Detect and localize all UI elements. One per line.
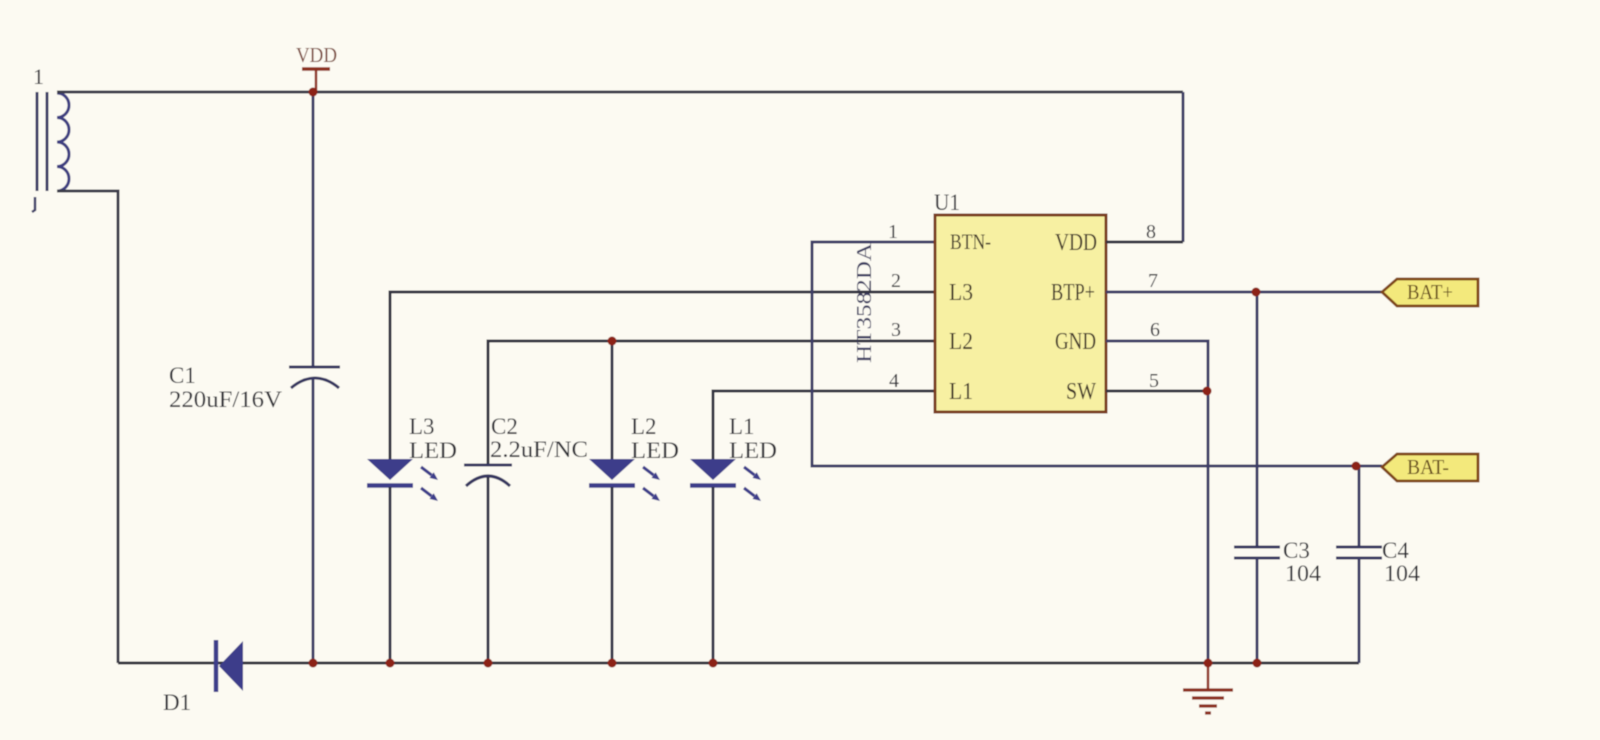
svg-text:L3: L3 [949,280,973,306]
wire: LED L2 lower lead [611,487,614,663]
node: C2 bus junction dot [484,659,493,668]
svg-text:BTP+: BTP+ [1051,280,1095,306]
svg-text:C1: C1 [169,363,196,388]
ground symbol bars [1183,690,1233,713]
node: C1 bus junction dot [309,659,318,668]
wire: C4 lower lead [1358,558,1361,663]
LED L1 triangle [690,459,736,480]
svg-text:3: 3 [891,319,901,341]
LED L2 arrow 2 [643,488,660,501]
diode D1 triangle [219,641,243,691]
diode D1 cathode bar [214,640,219,692]
transformer T1 bottom polarity tick [32,197,35,212]
wire: top bus from transformer to pin8 riser [57,91,1183,94]
svg-text:2: 2 [891,270,901,292]
svg-text:L1: L1 [949,379,973,405]
wire: U1 pin 3 to C2 [488,341,935,464]
wire: C4 upper lead [1358,466,1361,547]
svg-text:L2: L2 [949,329,973,355]
svg-text:LED: LED [409,438,457,463]
wire: U1 pin 6 GND down to bus [1106,341,1208,663]
svg-text:BTN-: BTN- [950,229,991,254]
LED L3 arrow 2 [421,488,438,501]
capacitor C3 top plate [1234,546,1280,549]
wire: C1 lower lead [312,379,315,663]
svg-text:5: 5 [1149,370,1159,392]
capacitor C4 top plate [1336,546,1382,549]
LED L2 triangle [589,459,635,480]
LED L3 arrow 1 [421,467,438,480]
svg-text:L3: L3 [409,414,435,439]
LED L2 arrow 1 [643,467,660,480]
capacitor C1 curved plate [291,378,339,388]
svg-text:BAT-: BAT- [1407,455,1449,479]
svg-text:L1: L1 [729,414,755,439]
capacitor C2 curved plate [466,476,510,486]
transformer T1 core bars [37,92,47,191]
transformer T1 coil [57,93,69,191]
wire: bottom ground bus [118,662,1359,665]
wire: LED L1 lower lead [712,487,715,663]
wire: U1 pin 4 to LED L1 [713,391,935,460]
node: L1 bus junction dot [709,659,718,668]
svg-text:6: 6 [1150,319,1160,341]
svg-text:1: 1 [888,221,898,243]
svg-text:C2: C2 [491,414,518,439]
svg-text:GND: GND [1055,329,1096,355]
svg-text:7: 7 [1148,270,1158,292]
wire: U1 pin 2 to LED L3 [390,292,935,460]
node: L3 bus junction dot [386,659,395,668]
LED L2 cathode bar [589,483,635,488]
power symbol VDD bar [302,67,330,71]
node: VDD junction dot [309,88,318,97]
LED L3 triangle [367,459,413,480]
svg-text:SW: SW [1066,379,1096,405]
capacitor C4 bottom plate [1336,557,1382,560]
capacitor C1 top plate [289,366,340,369]
svg-text:L2: L2 [631,414,657,439]
port BAT+ [1382,279,1478,306]
node: ground bus junction dot [1204,659,1213,668]
wire: L2 upper lead [611,341,614,460]
LED L1 arrow 2 [744,488,761,501]
svg-text:LED: LED [631,438,679,463]
LED L1 arrow 1 [744,467,761,480]
LED L1 cathode bar [690,483,736,488]
svg-text:LED: LED [729,438,777,463]
wire: U1 pin 5 SW stub [1106,390,1208,393]
node: L2 tap junction dot [608,337,617,346]
wire: C3 lower lead [1256,558,1259,663]
node: BAT- / C4 junction dot [1352,462,1361,471]
wire: C2 lower lead [487,477,490,663]
svg-text:C4: C4 [1382,538,1409,563]
svg-text:4: 4 [889,370,899,392]
IC U1 body [935,215,1106,412]
wire: U1 pin 7 BTP+ to BAT+ [1106,291,1382,294]
node: C3 bus junction dot [1253,659,1262,668]
node: BTP+ / C3 junction dot [1252,288,1261,297]
wire: C3 upper lead [1256,292,1259,547]
svg-text:BAT+: BAT+ [1407,280,1453,304]
LED L3 cathode bar [367,483,413,488]
wire: U1 pin 1 BTN- to BAT- net [812,242,1382,466]
wire: riser down to U1 pin 8 [1182,92,1185,242]
svg-text:VDD: VDD [296,43,337,67]
svg-text:1: 1 [33,64,44,89]
svg-text:104: 104 [1384,561,1421,586]
svg-text:HT3582DA: HT3582DA [852,242,876,363]
svg-text:C3: C3 [1283,538,1310,563]
svg-text:VDD: VDD [1055,230,1097,256]
wire: LED L3 lower lead [389,487,392,663]
node: L2 bus junction dot [608,659,617,668]
capacitor C3 bottom plate [1234,557,1280,560]
svg-text:104: 104 [1285,561,1322,586]
node: SW junction dot [1203,387,1212,396]
svg-text:U1: U1 [934,190,960,215]
svg-text:8: 8 [1146,221,1156,243]
capacitor C2 top plate [464,464,512,467]
svg-text:220uF/16V: 220uF/16V [169,387,282,412]
svg-text:2.2uF/NC: 2.2uF/NC [490,437,588,462]
port BAT- [1382,454,1478,481]
power symbol VDD stub [315,69,318,91]
ground symbol stub [1207,663,1210,689]
wire: transformer bottom to left riser [57,191,118,663]
wire: C1 upper lead [312,92,315,366]
svg-text:D1: D1 [163,690,191,715]
wire: U1 pin 8 stub [1106,241,1183,244]
